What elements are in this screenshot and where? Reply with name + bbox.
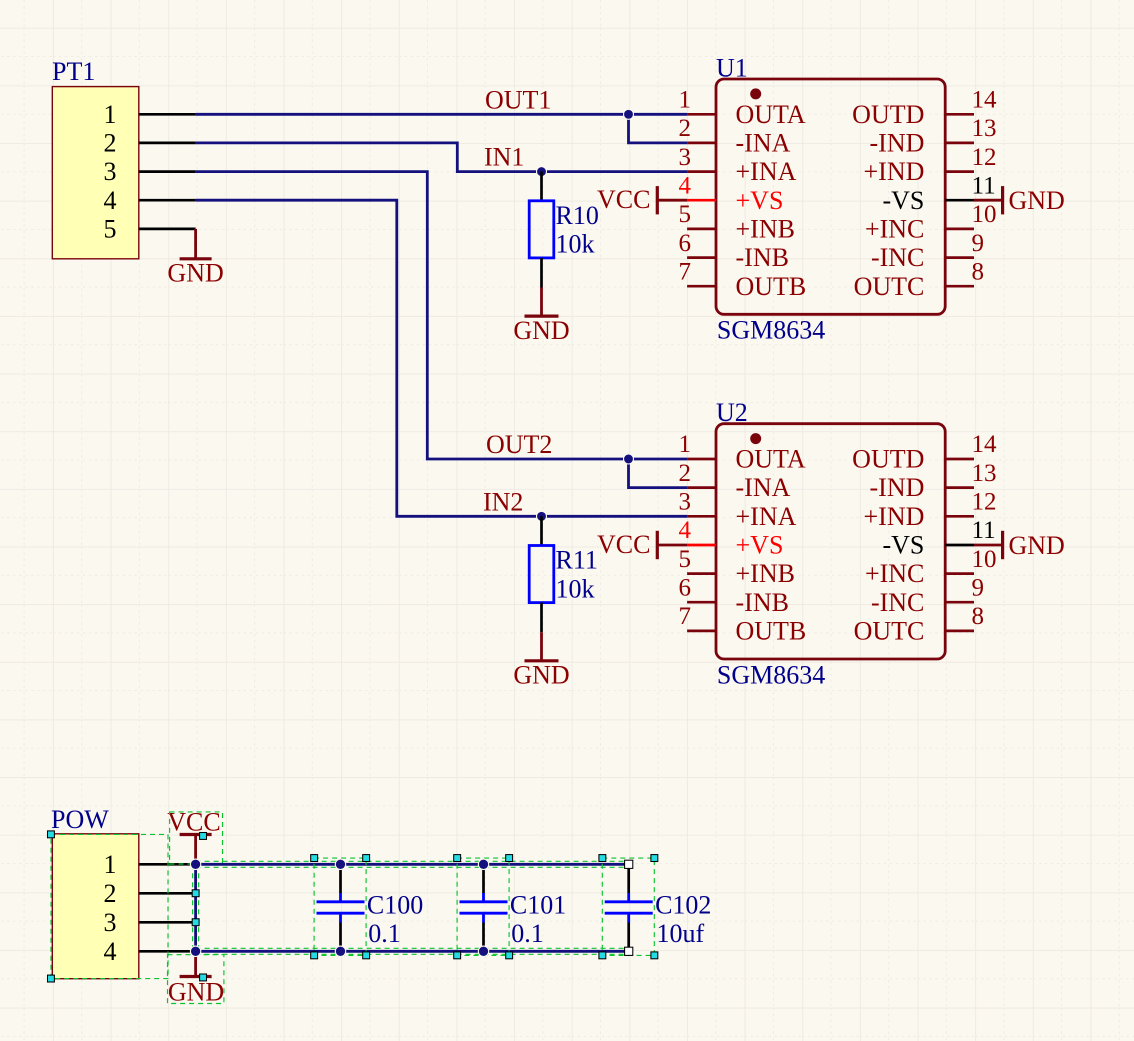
svg-text:-INA: -INA xyxy=(736,129,791,158)
POW pin 4 xyxy=(104,937,196,966)
U1 pin 9 -INC xyxy=(871,230,984,272)
svg-text:OUTA: OUTA xyxy=(736,445,806,474)
svg-text:6: 6 xyxy=(679,575,692,602)
U2 pin 12 +IND xyxy=(864,489,997,531)
svg-text:10uf: 10uf xyxy=(657,919,705,948)
U2 pin 11 -VS xyxy=(882,517,995,559)
svg-text:11: 11 xyxy=(972,517,996,544)
svg-text:+INA: +INA xyxy=(736,502,797,531)
wire OUT2 branch to U2 pin2 xyxy=(629,459,688,488)
svg-text:IN1: IN1 xyxy=(484,143,524,172)
svg-text:C102: C102 xyxy=(655,891,711,920)
PT1 pin 2 xyxy=(104,129,196,158)
U1 pin 11 -VS xyxy=(882,172,995,214)
selection box C100 xyxy=(311,855,370,959)
svg-text:R10: R10 xyxy=(556,201,599,230)
svg-text:+IND: +IND xyxy=(864,502,925,531)
svg-text:OUT1: OUT1 xyxy=(485,85,551,114)
svg-text:-IND: -IND xyxy=(870,473,925,502)
U1 pin 10 +INC xyxy=(865,201,997,243)
svg-text:GND: GND xyxy=(513,316,569,345)
svg-text:8: 8 xyxy=(972,258,985,285)
svg-text:3: 3 xyxy=(104,908,117,937)
svg-text:GND: GND xyxy=(1009,186,1065,215)
svg-text:2: 2 xyxy=(679,115,692,142)
junction POW pin1/VCC xyxy=(190,859,200,869)
svg-text:3: 3 xyxy=(104,157,117,186)
PT1 pin 1 xyxy=(104,100,196,129)
junction C100 top xyxy=(335,859,345,869)
POW pin 1 xyxy=(104,850,196,879)
POW pin 2 xyxy=(104,879,196,908)
svg-text:1: 1 xyxy=(104,100,117,129)
svg-text:-IND: -IND xyxy=(870,129,925,158)
junction node IN2 xyxy=(537,511,547,521)
svg-text:4: 4 xyxy=(679,517,692,544)
svg-text:10: 10 xyxy=(972,546,997,573)
power port GND (U1 pin 11) xyxy=(974,186,1065,215)
POW pin 3 xyxy=(104,908,196,937)
junction C101 top xyxy=(478,859,488,869)
U1 pin 2 -INA xyxy=(679,115,791,157)
svg-text:6: 6 xyxy=(679,230,692,257)
power port GND (U2 pin 11) xyxy=(974,531,1065,560)
wire net IN1 (PT1 pin2 to U1 pin3) xyxy=(196,143,687,172)
U1 pin 8 OUTC xyxy=(854,258,984,300)
svg-text:-INB: -INB xyxy=(736,243,789,272)
svg-text:-VS: -VS xyxy=(882,186,924,215)
svg-text:C101: C101 xyxy=(510,891,566,920)
svg-text:13: 13 xyxy=(972,460,997,487)
svg-text:8: 8 xyxy=(972,603,985,630)
resistor R10 10k xyxy=(529,172,599,288)
svg-text:3: 3 xyxy=(679,489,692,516)
svg-text:2: 2 xyxy=(104,129,117,158)
svg-text:SGM8634: SGM8634 xyxy=(717,316,825,345)
selection box POW xyxy=(48,831,169,982)
wire vertical POW pins bus xyxy=(194,864,197,951)
connector POW xyxy=(51,805,139,979)
svg-text:14: 14 xyxy=(972,87,998,114)
svg-text:13: 13 xyxy=(972,115,997,142)
svg-text:1: 1 xyxy=(679,87,692,114)
svg-text:10k: 10k xyxy=(556,230,595,259)
U2 pin 7 OUTB xyxy=(679,603,807,645)
svg-text:IN2: IN2 xyxy=(483,487,523,516)
wire OUT1 branch to U1 pin2 xyxy=(629,114,688,143)
capacitor C100 0.1 xyxy=(317,864,424,951)
ground (R11) xyxy=(513,632,569,690)
svg-text:POW: POW xyxy=(51,805,109,834)
U1 pin 1 OUTA xyxy=(679,87,806,129)
selection dashes vertical wire xyxy=(192,864,199,951)
svg-text:5: 5 xyxy=(679,201,692,228)
wire endpoint handle bottom xyxy=(625,947,633,955)
U2 pin 6 -INB xyxy=(679,575,789,617)
ground (PT1 pin 5) xyxy=(167,229,223,288)
svg-text:U1: U1 xyxy=(716,54,748,83)
svg-text:OUTB: OUTB xyxy=(736,272,807,301)
selection box VCC xyxy=(170,812,223,864)
U2 pin 2 -INA xyxy=(679,460,791,502)
svg-text:4: 4 xyxy=(104,186,117,215)
wire VCC rail (top) xyxy=(196,863,629,866)
svg-text:-INA: -INA xyxy=(736,473,791,502)
wire GND rail (bottom) xyxy=(196,950,629,953)
wire net OUT2 (PT1 pin3 to U2 pin1) xyxy=(196,172,687,459)
svg-text:10: 10 xyxy=(972,201,997,228)
PT1 pin 3 xyxy=(104,157,196,186)
U1 pin 5 +INB xyxy=(679,201,795,243)
op-amp U1 SGM8634 body xyxy=(716,54,945,345)
U1 pin 6 -INB xyxy=(679,230,789,272)
svg-text:1: 1 xyxy=(679,431,692,458)
svg-text:+INC: +INC xyxy=(865,559,924,588)
svg-text:5: 5 xyxy=(104,215,117,244)
U1 pin 4 +VS xyxy=(679,172,784,214)
U2 pin 3 +INA xyxy=(679,489,797,531)
junction node OUT1 xyxy=(624,109,634,119)
selection dashes top wire xyxy=(196,861,629,867)
U1 pin 13 -IND xyxy=(870,115,997,157)
U1 pin 14 OUTD xyxy=(852,87,997,129)
junction node OUT2 xyxy=(624,454,634,464)
svg-text:+IND: +IND xyxy=(864,157,925,186)
svg-text:7: 7 xyxy=(679,603,692,630)
svg-text:-VS: -VS xyxy=(882,531,924,560)
capacitor C101 0.1 xyxy=(460,864,567,951)
svg-text:+VS: +VS xyxy=(736,186,784,215)
svg-text:0.1: 0.1 xyxy=(511,919,544,948)
U2 pin 5 +INB xyxy=(679,546,795,588)
power port GND (POW) xyxy=(168,951,224,1006)
svg-text:VCC: VCC xyxy=(597,185,650,214)
svg-text:7: 7 xyxy=(679,258,692,285)
svg-text:OUTB: OUTB xyxy=(736,617,807,646)
svg-text:0.1: 0.1 xyxy=(368,919,401,948)
wire net IN2 (PT1 pin4 to U2 pin3) xyxy=(196,200,687,516)
svg-text:10k: 10k xyxy=(556,574,595,603)
svg-text:+INA: +INA xyxy=(736,157,797,186)
U2 pin 9 -INC xyxy=(871,575,984,617)
power port VCC (POW) xyxy=(167,808,220,865)
svg-text:2: 2 xyxy=(104,879,117,908)
PT1 pin 5 xyxy=(104,215,196,244)
U2 pin 8 OUTC xyxy=(854,603,984,645)
capacitor C102 10uf xyxy=(605,864,712,951)
svg-text:+INC: +INC xyxy=(865,215,924,244)
selection box C102 xyxy=(599,855,658,959)
U2 pin 1 OUTA xyxy=(679,431,806,473)
U1 pin 12 +IND xyxy=(864,144,997,186)
selection box C101 xyxy=(454,855,513,959)
svg-text:-INC: -INC xyxy=(871,243,924,272)
svg-text:14: 14 xyxy=(972,431,998,458)
svg-text:GND: GND xyxy=(168,978,224,1007)
svg-text:12: 12 xyxy=(972,144,997,171)
selection dashes bottom wire xyxy=(196,948,629,954)
svg-text:9: 9 xyxy=(972,575,985,602)
svg-text:R11: R11 xyxy=(556,546,598,575)
connector PT1 xyxy=(52,57,139,259)
svg-text:GND: GND xyxy=(167,259,223,288)
svg-text:VCC: VCC xyxy=(597,530,650,559)
ground (R10) xyxy=(513,288,569,346)
svg-text:GND: GND xyxy=(513,661,569,690)
U2 pin 14 OUTD xyxy=(852,431,997,473)
svg-text:+INB: +INB xyxy=(736,215,795,244)
svg-text:+INB: +INB xyxy=(736,559,795,588)
svg-text:9: 9 xyxy=(972,230,985,257)
PT1 pin 4 xyxy=(104,186,196,215)
svg-text:SGM8634: SGM8634 xyxy=(717,660,825,689)
U1 pin 7 OUTB xyxy=(679,258,807,300)
junction C100 bottom xyxy=(335,946,345,956)
svg-text:PT1: PT1 xyxy=(52,57,95,86)
U1 pin 3 +INA xyxy=(679,144,797,186)
svg-text:OUTC: OUTC xyxy=(854,617,925,646)
svg-text:+VS: +VS xyxy=(736,531,784,560)
svg-text:VCC: VCC xyxy=(167,808,220,837)
wire endpoint handle top xyxy=(625,860,633,868)
svg-text:OUTA: OUTA xyxy=(736,100,806,129)
U2 pin 13 -IND xyxy=(870,460,997,502)
svg-text:OUT2: OUT2 xyxy=(486,430,552,459)
selection box GND xyxy=(168,955,224,1004)
power port VCC (U1 pin 4) xyxy=(597,185,687,214)
svg-text:4: 4 xyxy=(679,172,692,199)
svg-text:12: 12 xyxy=(972,489,997,516)
svg-text:OUTD: OUTD xyxy=(852,445,924,474)
svg-text:4: 4 xyxy=(104,937,117,966)
svg-text:2: 2 xyxy=(679,460,692,487)
svg-text:U2: U2 xyxy=(716,398,748,427)
svg-text:1: 1 xyxy=(104,850,117,879)
junction POW pin4/GND xyxy=(190,946,200,956)
svg-text:11: 11 xyxy=(972,172,996,199)
power port VCC (U2 pin 4) xyxy=(597,530,687,559)
U2 pin 4 +VS xyxy=(679,517,784,559)
svg-text:OUTC: OUTC xyxy=(854,272,925,301)
svg-text:GND: GND xyxy=(1009,531,1065,560)
svg-text:5: 5 xyxy=(679,546,692,573)
U2 pin 10 +INC xyxy=(865,546,997,588)
op-amp U2 SGM8634 body xyxy=(716,398,945,689)
svg-text:OUTD: OUTD xyxy=(852,100,924,129)
svg-text:3: 3 xyxy=(679,144,692,171)
svg-text:C100: C100 xyxy=(367,891,423,920)
resistor R11 10k xyxy=(529,516,598,632)
wire net OUT1 (PT1 pin1 to U1 pin1) xyxy=(196,113,687,116)
junction node IN1 xyxy=(537,167,547,177)
junction C101 bottom xyxy=(478,946,488,956)
svg-text:-INB: -INB xyxy=(736,588,789,617)
svg-text:-INC: -INC xyxy=(871,588,924,617)
